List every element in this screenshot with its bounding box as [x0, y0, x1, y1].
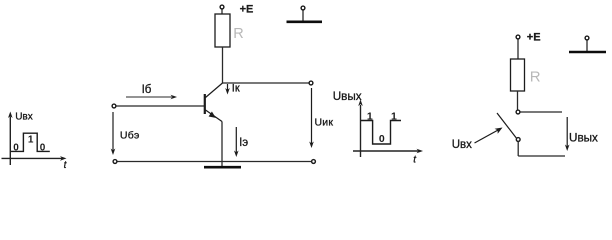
stem of common terminal (right)	[586, 41, 588, 52]
svg-text:Iб: Iб	[142, 84, 152, 96]
terminal +E (right circuit)	[516, 35, 520, 39]
transistor VT (NPN) base bar	[204, 94, 206, 114]
svg-text:0: 0	[379, 133, 385, 145]
supply common terminal (right circuit)	[585, 36, 589, 40]
y-axis arrowhead (input graph)	[8, 112, 13, 119]
wire terminal to resistor	[221, 10, 223, 15]
svg-text:0: 0	[13, 143, 19, 154]
pointer arrow from Uvx to switch blade	[475, 130, 500, 144]
svg-text:+E: +E	[240, 3, 254, 15]
collector current arrow Ik	[227, 84, 229, 91]
ground bar	[204, 166, 241, 169]
svg-text:Iэ: Iэ	[239, 137, 248, 149]
svg-text:1: 1	[367, 110, 373, 122]
emitter wire	[221, 122, 223, 167]
resistor R (collector load)	[215, 14, 230, 47]
y-axis arrowhead (output graph)	[358, 100, 363, 107]
switch blade (open)	[497, 113, 516, 138]
input pulse waveform	[11, 133, 50, 151]
switch upper contact	[516, 110, 520, 114]
wire lower contact down	[517, 142, 519, 157]
output pulse waveform (inverted)	[361, 121, 401, 145]
x-axis of output graph	[353, 150, 420, 152]
svg-text:R: R	[233, 26, 243, 42]
svg-text:Iк: Iк	[232, 83, 240, 95]
svg-text:0: 0	[40, 143, 46, 154]
y-axis of input graph	[9, 117, 11, 166]
svg-text:+E: +E	[527, 32, 541, 44]
base current arrow Ib	[126, 96, 172, 98]
svg-text:Uвх: Uвх	[452, 139, 472, 151]
base-emitter voltage arrow Ube	[112, 112, 114, 151]
svg-text:Uбэ: Uбэ	[120, 130, 140, 142]
switch lower contact	[516, 138, 520, 142]
collector-emitter voltage arrow Uik	[311, 88, 313, 144]
bottom rail wire	[117, 161, 312, 163]
transistor emitter lead	[206, 110, 223, 122]
svg-text:Uвых: Uвых	[333, 90, 362, 103]
svg-text:Uвх: Uвх	[15, 112, 33, 123]
emitter arrowhead	[209, 112, 216, 118]
wire resistor to switch (right)	[517, 91, 519, 110]
terminal +E (top of resistor)	[220, 5, 224, 9]
x-axis of input graph	[2, 157, 64, 159]
wire from upper contact to output node	[521, 111, 563, 113]
wire resistor to collector node	[222, 47, 224, 83]
wire terminal to resistor (right)	[517, 40, 519, 60]
stem of common terminal (main)	[302, 11, 304, 22]
output terminal (top right of main)	[309, 81, 313, 85]
x-axis arrowhead (output graph)	[417, 149, 424, 154]
bottom left terminal	[113, 160, 117, 164]
input terminal (top left of main)	[112, 104, 116, 108]
bottom right terminal	[312, 160, 316, 164]
y-axis of output graph	[360, 105, 362, 157]
base wire	[117, 105, 205, 107]
common terminal bar (right)	[569, 51, 606, 54]
svg-text:1: 1	[391, 110, 397, 122]
svg-text:R: R	[530, 69, 541, 86]
x-axis arrowhead (input graph)	[60, 156, 67, 161]
svg-text:1: 1	[28, 134, 34, 145]
resistor R (right circuit)	[511, 59, 525, 91]
svg-text:Uик: Uик	[315, 116, 334, 128]
output voltage arrow Uvyh (right circuit)	[566, 117, 568, 147]
emitter current arrow Ie	[235, 127, 237, 153]
supply common terminal (main, top right)	[301, 6, 305, 10]
common terminal bar (main)	[287, 20, 323, 23]
bottom output wire (right circuit)	[518, 155, 565, 157]
svg-text:Uвых: Uвых	[569, 131, 598, 144]
transistor collector lead	[206, 83, 223, 98]
collector rail wire	[223, 82, 310, 84]
